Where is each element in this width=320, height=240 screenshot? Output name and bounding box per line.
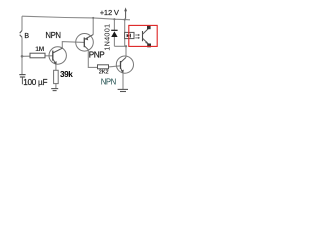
svg-text:NPN: NPN xyxy=(101,78,116,87)
svg-text:2K2: 2K2 xyxy=(99,70,109,76)
svg-text:39k: 39k xyxy=(60,70,73,79)
svg-text:+12 V: +12 V xyxy=(100,8,120,17)
svg-text:1N4001: 1N4001 xyxy=(102,24,111,51)
svg-text:1M: 1M xyxy=(35,46,44,53)
svg-text:PNP: PNP xyxy=(89,50,106,59)
svg-text:NPN: NPN xyxy=(45,31,60,40)
svg-text:B: B xyxy=(24,33,29,40)
svg-text:100 µF: 100 µF xyxy=(23,78,47,87)
